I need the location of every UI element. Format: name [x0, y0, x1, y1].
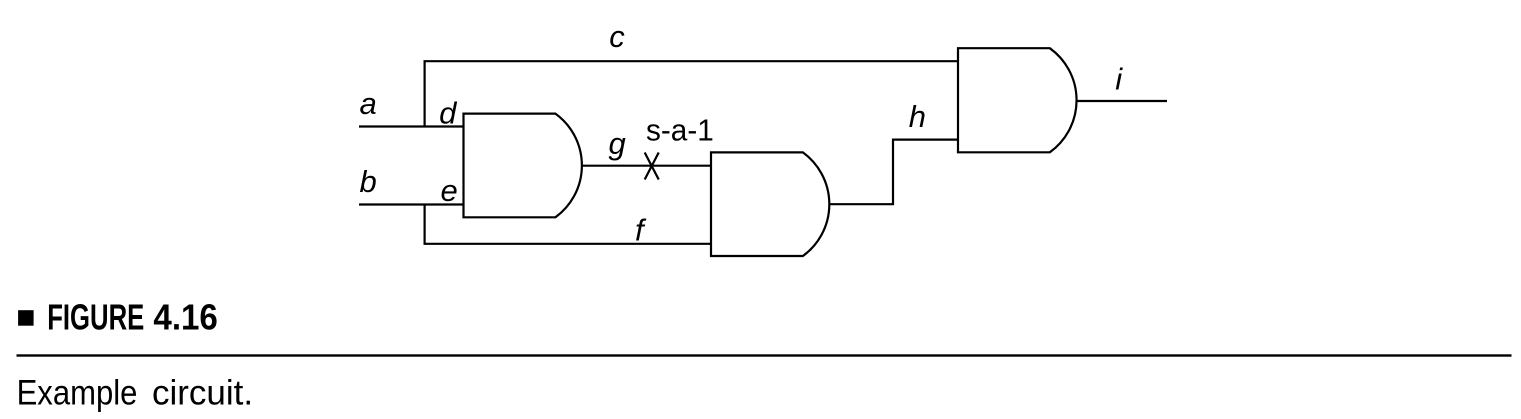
svg-text:d: d	[439, 96, 458, 131]
svg-text:s-a-1: s-a-1	[646, 113, 714, 148]
wire a (primary input a to gate G1 input d)	[359, 125, 464, 127]
wire f (branch of b, down and across to gate G2 bottom input)	[425, 205, 711, 244]
svg-text:FIGURE: FIGURE	[47, 297, 144, 337]
wire h (gate G2 output, up and across to gate G3 bottom input)	[829, 140, 958, 205]
svg-text:4.16: 4.16	[153, 298, 217, 338]
fault mark X (stuck-at-1 on wire g)	[645, 153, 659, 180]
svg-text:i: i	[1115, 61, 1123, 96]
svg-text:g: g	[609, 126, 626, 161]
AND gate G3 (inputs c,h; output i)	[958, 48, 1077, 152]
AND gate G1 (inputs d,e; output g)	[464, 114, 582, 218]
svg-text:e: e	[441, 173, 458, 208]
wire g (gate G1 output to gate G2 top input)	[582, 165, 712, 167]
svg-text:c: c	[609, 19, 625, 54]
svg-text:circuit.: circuit.	[152, 373, 253, 412]
wire i (gate G3 output)	[1076, 100, 1167, 102]
svg-text:b: b	[360, 164, 377, 199]
AND gate G2 (inputs g,f; output h)	[711, 152, 829, 256]
horizontal rule under caption	[17, 354, 1512, 356]
svg-text:Example: Example	[17, 374, 138, 413]
svg-text:a: a	[360, 86, 377, 121]
wire b (primary input b to gate G1 input e)	[359, 203, 464, 205]
svg-text:h: h	[909, 99, 926, 134]
figure caption bullet square	[18, 310, 33, 326]
wire c (branch of a, up and across to gate G3 top input)	[425, 61, 958, 126]
